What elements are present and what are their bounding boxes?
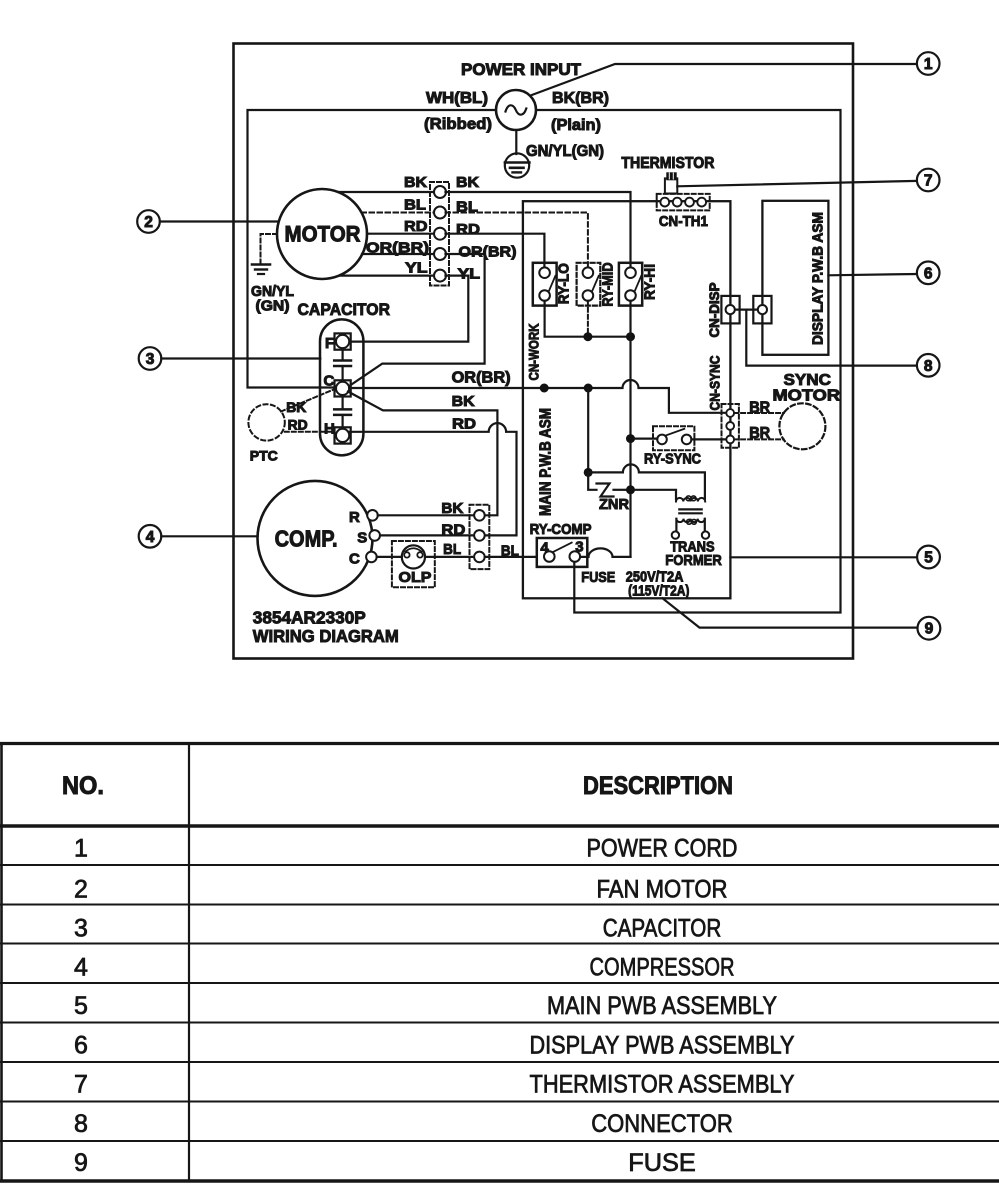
svg-text:POWER CORD: POWER CORD bbox=[587, 835, 738, 863]
callout 4 circle bbox=[139, 525, 162, 548]
svg-text:FUSE: FUSE bbox=[628, 1149, 696, 1177]
wire compressor S to connector bbox=[380, 534, 474, 536]
svg-text:MAIN P.W.B ASM: MAIN P.W.B ASM bbox=[538, 408, 555, 516]
connector pins bbox=[434, 186, 446, 198]
dashed BR wire bottom to sync motor bbox=[734, 438, 784, 440]
fuse wire with fuse arc bbox=[580, 548, 630, 557]
wire to transformer primary right bbox=[588, 464, 705, 499]
svg-text:(115V/T2A): (115V/T2A) bbox=[628, 583, 689, 600]
relay RY-LO box bbox=[533, 263, 557, 306]
wire motor BL to connector (dashed) bbox=[362, 212, 435, 214]
svg-text:BL: BL bbox=[404, 197, 426, 214]
power input AC source symbol bbox=[496, 90, 536, 130]
OLP symbol bbox=[402, 545, 425, 568]
svg-text:OLP: OLP bbox=[399, 569, 432, 586]
wire: callout 6 leader from display box bbox=[828, 274, 917, 275]
svg-text:1: 1 bbox=[74, 835, 88, 863]
dashed drop RY-MID to bus bbox=[587, 301, 589, 337]
svg-text:OR(BR): OR(BR) bbox=[452, 370, 511, 387]
svg-text:(Ribbed): (Ribbed) bbox=[424, 116, 492, 133]
ZNR varistor symbol bbox=[597, 484, 614, 497]
svg-text:POWER INPUT: POWER INPUT bbox=[461, 61, 581, 79]
svg-text:7: 7 bbox=[74, 1071, 88, 1099]
svg-text:WH(BL): WH(BL) bbox=[426, 90, 488, 107]
callout 2 circle bbox=[137, 210, 160, 233]
callout 9 circle bbox=[918, 617, 941, 640]
svg-text:RY-MID: RY-MID bbox=[601, 263, 617, 307]
svg-text:BK: BK bbox=[441, 500, 463, 517]
wire: callout 3 leader to capacitor bbox=[161, 357, 320, 359]
wire: callout 2 leader to fan motor bbox=[160, 220, 279, 222]
svg-text:OR(BR): OR(BR) bbox=[366, 240, 429, 257]
junction dot CN-WORK pin bbox=[540, 384, 549, 393]
wire BK from connector to RY-HI bbox=[446, 192, 631, 267]
wire YL from connector down to capacitor F bbox=[352, 276, 469, 342]
capacitor plates F-C bbox=[342, 350, 344, 360]
svg-text:5: 5 bbox=[924, 550, 933, 567]
wire ZNR to node bbox=[614, 489, 627, 491]
svg-text:BK: BK bbox=[404, 174, 427, 191]
wire ZNR branch down from OR(BR) node bbox=[587, 388, 589, 472]
svg-text:8: 8 bbox=[924, 358, 933, 375]
svg-text:DESCRIPTION: DESCRIPTION bbox=[583, 772, 733, 800]
svg-text:BK: BK bbox=[286, 400, 306, 415]
thermistor body bbox=[665, 178, 677, 193]
PTC BK dashed wire to capacitor C bbox=[281, 389, 336, 412]
capacitor terminal C bbox=[335, 380, 351, 396]
svg-text:COMPRESSOR: COMPRESSOR bbox=[590, 954, 735, 982]
parts table top border bbox=[0, 742, 999, 745]
svg-text:3: 3 bbox=[146, 351, 155, 368]
compressor lead connector (dashed) bbox=[470, 505, 490, 569]
svg-text:6: 6 bbox=[74, 1032, 88, 1060]
svg-text:COMP.: COMP. bbox=[275, 526, 338, 552]
svg-text:RY-HI: RY-HI bbox=[643, 264, 659, 300]
relay RY-MID box (dashed) bbox=[577, 263, 601, 306]
table row lines bbox=[0, 864, 999, 866]
svg-text:CONNECTOR: CONNECTOR bbox=[591, 1110, 733, 1138]
wire RD from connector to RY-LO bbox=[446, 234, 545, 268]
wire: callout 9 leader from PWB bottom edge bbox=[663, 598, 918, 627]
RY-COMP relay box bbox=[537, 538, 588, 567]
wire: power neutral WH(BL) from source left down to capacitor C bbox=[248, 110, 497, 388]
svg-text:BL: BL bbox=[443, 541, 461, 558]
svg-text:RD: RD bbox=[456, 221, 480, 238]
svg-text:2: 2 bbox=[144, 214, 153, 231]
compressor terminal C bbox=[366, 552, 377, 563]
capacitor plates C-H bbox=[342, 397, 344, 409]
junction dot transformer branch bbox=[584, 468, 593, 477]
svg-text:THERMISTOR: THERMISTOR bbox=[621, 155, 714, 172]
wire node to transformer primary left bbox=[635, 490, 677, 499]
callout 5 circle bbox=[917, 546, 940, 569]
motor lead connector (dashed) bbox=[430, 182, 449, 286]
svg-text:3: 3 bbox=[74, 915, 88, 943]
wire motor YL to connector bbox=[341, 275, 435, 277]
wire RY-SYNC coil feed bbox=[631, 438, 658, 440]
svg-text:RY-LO: RY-LO bbox=[557, 263, 573, 304]
wire BL to RY-COMP bbox=[485, 556, 537, 558]
svg-text:FORMER: FORMER bbox=[665, 552, 722, 569]
connector CN-SYNC (dashed) bbox=[722, 404, 739, 448]
svg-text:DISPLAY PWB ASSEMBLY: DISPLAY PWB ASSEMBLY bbox=[530, 1032, 795, 1060]
svg-text:BK(BR): BK(BR) bbox=[552, 90, 609, 107]
svg-text:OR(BR): OR(BR) bbox=[459, 244, 517, 261]
callout 1 circle bbox=[917, 52, 940, 75]
wire OR(BR) from connector down to capacitor C bbox=[349, 254, 485, 387]
wire: callout 4 leader to compressor bbox=[161, 535, 257, 537]
svg-text:MOTOR: MOTOR bbox=[285, 222, 361, 247]
svg-text:H: H bbox=[324, 421, 335, 438]
wire compressor C through OLP to connector bbox=[377, 556, 402, 558]
callout 3 circle bbox=[139, 347, 162, 370]
svg-text:F: F bbox=[325, 335, 334, 352]
transformer core bbox=[679, 508, 701, 510]
svg-text:CN-TH1: CN-TH1 bbox=[659, 213, 708, 230]
junction dot RY-MID bus bbox=[583, 332, 592, 341]
dashed BR wire top to sync motor bbox=[734, 412, 784, 414]
svg-text:9: 9 bbox=[925, 621, 934, 638]
svg-text:CN-SYNC: CN-SYNC bbox=[708, 355, 723, 410]
svg-text:MAIN PWB ASSEMBLY: MAIN PWB ASSEMBLY bbox=[547, 992, 777, 1020]
svg-text:S: S bbox=[357, 530, 367, 547]
table column divider bbox=[188, 744, 190, 1182]
svg-text:MOTOR: MOTOR bbox=[773, 388, 841, 405]
svg-text:BK: BK bbox=[456, 174, 479, 191]
compressor circle bbox=[258, 481, 373, 596]
transformer primary winding bbox=[676, 498, 705, 502]
wire down to ZNR bbox=[588, 472, 596, 489]
wire BL from connector to RY-MID (dashed) bbox=[446, 213, 588, 268]
svg-text:THERMISTOR ASSEMBLY: THERMISTOR ASSEMBLY bbox=[530, 1071, 795, 1099]
motor ground symbol bbox=[252, 263, 270, 266]
svg-text:C: C bbox=[324, 373, 335, 390]
svg-text:WIRING DIAGRAM: WIRING DIAGRAM bbox=[253, 626, 399, 646]
wire BK from capacitor C to compressor R bbox=[348, 392, 497, 516]
fan motor circle bbox=[277, 189, 367, 279]
svg-text:RD: RD bbox=[404, 218, 428, 235]
RY-SYNC relay (dashed) bbox=[653, 426, 694, 450]
table bottom border bbox=[0, 1179, 999, 1182]
svg-text:YL: YL bbox=[405, 260, 428, 277]
svg-text:SYNC: SYNC bbox=[784, 372, 832, 389]
capacitor terminal F bbox=[335, 333, 351, 349]
svg-text:9: 9 bbox=[74, 1149, 88, 1177]
wire relay common bus bbox=[545, 301, 631, 337]
OLP dashed box bbox=[392, 541, 435, 587]
wire OR(BR) from capacitor C to main PWB and CN-SYNC bbox=[349, 380, 726, 413]
wire motor RD to connector bbox=[367, 233, 435, 235]
svg-text:C: C bbox=[349, 551, 360, 568]
svg-text:7: 7 bbox=[924, 173, 933, 190]
outer border of wiring diagram bbox=[234, 44, 854, 659]
svg-text:RY-SYNC: RY-SYNC bbox=[644, 451, 701, 468]
ground wire from AC source bbox=[515, 130, 517, 154]
svg-text:ZNR: ZNR bbox=[599, 496, 629, 513]
junction dot RY-HI bus bbox=[626, 332, 635, 341]
svg-text:PTC: PTC bbox=[250, 448, 278, 464]
junction dot at ZNR branch bbox=[584, 384, 593, 393]
svg-text:CAPACITOR: CAPACITOR bbox=[298, 300, 391, 319]
svg-text:5: 5 bbox=[74, 992, 88, 1020]
svg-text:FAN MOTOR: FAN MOTOR bbox=[597, 876, 728, 904]
connector CN-TH1 (dashed) bbox=[657, 194, 710, 211]
PTC RD dashed wire to capacitor H bbox=[285, 431, 335, 433]
wire: callout 7 leader from thermistor bbox=[677, 181, 917, 186]
transformer secondary winding bbox=[676, 519, 704, 523]
svg-text:CN-DISP: CN-DISP bbox=[707, 283, 722, 338]
transformer secondary leads bbox=[675, 519, 677, 531]
table header separator bbox=[0, 824, 999, 828]
PTC dashed circle bbox=[248, 404, 284, 440]
svg-text:4: 4 bbox=[146, 529, 155, 546]
compressor terminal R bbox=[367, 510, 378, 521]
protective earth ground symbol bbox=[505, 153, 529, 177]
wire RY-HI common down to fuse corner bbox=[629, 301, 631, 557]
connector CN-DISP bbox=[735, 309, 758, 311]
wire RY-SYNC to CN-SYNC bbox=[691, 438, 726, 440]
svg-text:6: 6 bbox=[924, 265, 933, 282]
capacitor terminal H bbox=[335, 427, 351, 443]
svg-text:GN/YL(GN): GN/YL(GN) bbox=[526, 143, 604, 160]
junction dot ZNR node bbox=[626, 485, 635, 494]
svg-text:RD: RD bbox=[441, 522, 465, 539]
svg-text:4: 4 bbox=[74, 954, 88, 982]
compressor terminal S bbox=[369, 530, 380, 541]
main PWB box bbox=[523, 201, 731, 598]
junction dot RY-SYNC branch bbox=[626, 434, 635, 443]
callout 7 circle bbox=[917, 169, 940, 192]
capacitor body outline bbox=[320, 319, 363, 455]
thermistor cap bbox=[666, 172, 676, 180]
motor ground dashed wire bbox=[261, 234, 278, 263]
wire: callout 5 leader / main box to power rail bbox=[730, 556, 917, 558]
svg-text:1: 1 bbox=[924, 56, 933, 73]
svg-text:3854AR2330P: 3854AR2330P bbox=[253, 608, 366, 628]
display PWB box bbox=[762, 201, 828, 355]
relay RY-HI box bbox=[619, 263, 642, 306]
wire motor OR(BR) to connector bbox=[362, 253, 435, 255]
wire RD from capacitor H to compressor S bbox=[349, 423, 516, 535]
svg-text:NO.: NO. bbox=[62, 772, 104, 800]
svg-text:CAPACITOR: CAPACITOR bbox=[603, 915, 722, 943]
svg-text:BK: BK bbox=[452, 393, 475, 410]
sync motor dashed circle bbox=[779, 403, 825, 449]
svg-text:(GN): (GN) bbox=[256, 299, 290, 315]
wire: callout 1 leader from power input bbox=[531, 64, 917, 96]
svg-text:FUSE: FUSE bbox=[581, 569, 615, 586]
svg-text:8: 8 bbox=[74, 1110, 88, 1138]
callout 6 circle bbox=[917, 262, 940, 285]
wire compressor R to connector bbox=[378, 514, 474, 516]
wire: callout 8 leader from CN-DISP bbox=[746, 311, 917, 366]
svg-text:(Plain): (Plain) bbox=[551, 117, 601, 134]
svg-text:CN-WORK: CN-WORK bbox=[527, 323, 542, 380]
callout 8 circle bbox=[917, 354, 940, 377]
wire: power line BK(BR) from source right, down right rail, to RY-COMP pin 4 loop bbox=[536, 110, 841, 613]
svg-text:2: 2 bbox=[74, 876, 88, 904]
svg-text:R: R bbox=[349, 509, 360, 526]
wire motor BK to connector bbox=[339, 191, 435, 193]
svg-text:RD: RD bbox=[288, 418, 308, 433]
table left border bbox=[0, 744, 3, 1182]
svg-text:DISPLAY P.W.B ASM: DISPLAY P.W.B ASM bbox=[811, 212, 827, 345]
svg-text:RD: RD bbox=[452, 416, 476, 433]
svg-text:RY-COMP: RY-COMP bbox=[530, 521, 592, 538]
